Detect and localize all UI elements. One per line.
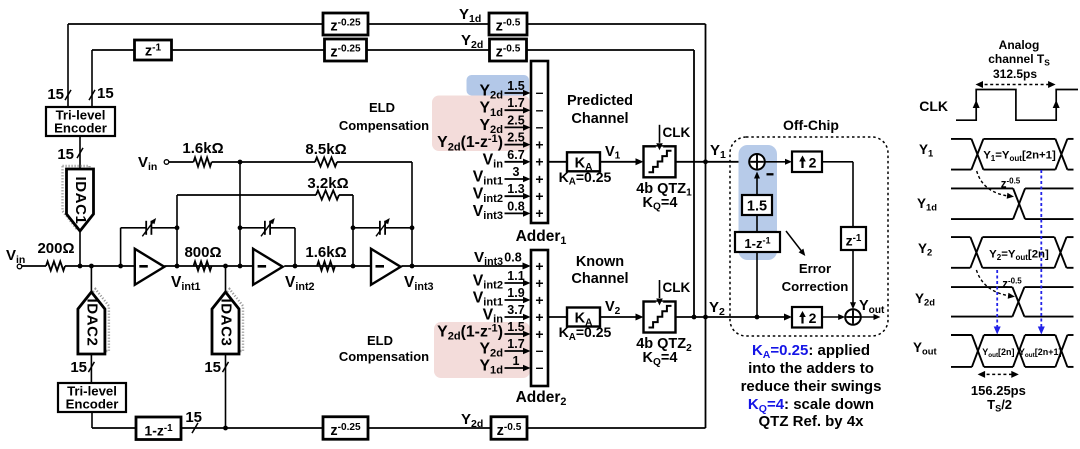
svg-text:0.8: 0.8 — [507, 199, 524, 213]
svg-text:1.3: 1.3 — [507, 182, 524, 196]
svg-text:CLK: CLK — [919, 98, 948, 114]
svg-text:Adder1: Adder1 — [516, 228, 567, 247]
svg-text:15: 15 — [204, 359, 221, 376]
svg-text:1.6kΩ: 1.6kΩ — [305, 244, 346, 261]
svg-text:2.5: 2.5 — [507, 131, 524, 145]
svg-text:3.2kΩ: 3.2kΩ — [307, 175, 348, 192]
svg-text:3.7: 3.7 — [507, 303, 524, 317]
svg-text:2: 2 — [809, 310, 817, 326]
svg-text:+: + — [535, 188, 543, 204]
svg-text:6.7: 6.7 — [507, 148, 524, 162]
svg-text:15: 15 — [97, 85, 114, 102]
svg-text:+: + — [535, 309, 543, 325]
svg-text:1.9: 1.9 — [507, 286, 524, 300]
svg-text:1.6kΩ: 1.6kΩ — [182, 140, 223, 157]
svg-text:CLK: CLK — [663, 125, 691, 140]
svg-text:+: + — [535, 205, 543, 221]
svg-text:2: 2 — [809, 154, 817, 170]
svg-text:–: – — [536, 119, 544, 135]
svg-text:KA=0.25: applied: KA=0.25: applied — [752, 342, 870, 361]
svg-text:–: – — [536, 84, 544, 100]
svg-text:+: + — [535, 136, 543, 152]
svg-text:3: 3 — [513, 165, 520, 179]
svg-text:+: + — [535, 258, 543, 274]
svg-text:1.7: 1.7 — [507, 337, 524, 351]
svg-text:156.25ps: 156.25ps — [971, 383, 1026, 398]
svg-text:channel TS: channel TS — [988, 52, 1050, 67]
svg-text:KA=0.25: KA=0.25 — [559, 169, 612, 188]
svg-text:+: + — [535, 275, 543, 291]
svg-text:+: + — [535, 326, 543, 342]
svg-text:200Ω: 200Ω — [37, 240, 74, 257]
svg-text:15: 15 — [57, 146, 74, 163]
svg-text:Compensation: Compensation — [339, 118, 429, 133]
svg-text:15: 15 — [47, 86, 64, 103]
svg-text:Predicted: Predicted — [567, 93, 633, 109]
svg-text:312.5ps: 312.5ps — [993, 67, 1037, 81]
svg-text:reduce their swings: reduce their swings — [741, 378, 882, 395]
svg-text:Known: Known — [576, 254, 624, 270]
svg-text:Compensation: Compensation — [339, 349, 429, 364]
svg-text:KQ=4: KQ=4 — [643, 195, 678, 213]
svg-text:0.8: 0.8 — [504, 251, 521, 265]
svg-text:ELD: ELD — [369, 100, 395, 115]
svg-text:IDAC2: IDAC2 — [83, 298, 100, 346]
svg-text:15: 15 — [185, 409, 202, 426]
svg-text:IDAC1: IDAC1 — [72, 176, 89, 224]
svg-text:Channel: Channel — [571, 111, 628, 127]
svg-text:–: – — [536, 359, 544, 375]
svg-text:1.5: 1.5 — [747, 199, 767, 215]
svg-text:IDAC3: IDAC3 — [218, 298, 235, 346]
svg-text:QTZ Ref. by 4x: QTZ Ref. by 4x — [758, 413, 864, 430]
svg-text:Adder2: Adder2 — [516, 389, 567, 408]
svg-text:15: 15 — [70, 359, 87, 376]
svg-text:Analog: Analog — [999, 38, 1040, 52]
svg-text:–: – — [536, 342, 544, 358]
svg-text:800Ω: 800Ω — [184, 244, 221, 261]
svg-text:KQ=4: KQ=4 — [643, 350, 678, 368]
svg-text:+: + — [535, 154, 543, 170]
svg-text:2.5: 2.5 — [507, 113, 524, 127]
svg-text:Off-Chip: Off-Chip — [783, 117, 839, 133]
svg-text:Error: Error — [799, 261, 831, 276]
svg-text:1.1: 1.1 — [507, 269, 524, 283]
svg-text:ELD: ELD — [367, 333, 393, 348]
svg-text:8.5kΩ: 8.5kΩ — [305, 141, 346, 158]
svg-text:1.5: 1.5 — [507, 79, 524, 93]
svg-text:CLK: CLK — [663, 280, 691, 295]
svg-text:Correction: Correction — [782, 279, 849, 294]
svg-text:+: + — [535, 292, 543, 308]
svg-text:Encoder: Encoder — [66, 397, 119, 412]
svg-text:Encoder: Encoder — [54, 121, 107, 136]
svg-text:1.5: 1.5 — [507, 320, 524, 334]
svg-text:1.7: 1.7 — [507, 96, 524, 110]
svg-text:Channel: Channel — [571, 271, 628, 287]
svg-text:1: 1 — [513, 354, 520, 368]
svg-text:KA=0.25: KA=0.25 — [559, 324, 612, 343]
svg-text:into the adders to: into the adders to — [748, 360, 874, 377]
svg-text:–: – — [536, 101, 544, 117]
svg-text:+: + — [535, 171, 543, 187]
